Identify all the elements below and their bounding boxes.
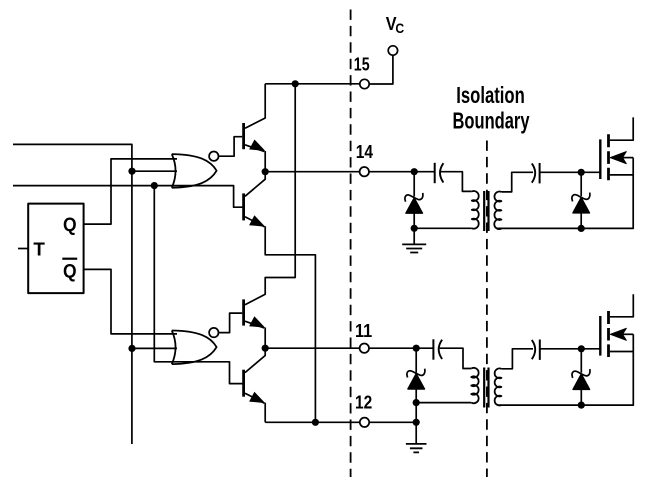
svg-text:Q: Q — [63, 261, 77, 282]
svg-text:14: 14 — [356, 141, 374, 162]
svg-text:11: 11 — [355, 320, 372, 341]
svg-text:12: 12 — [355, 391, 372, 412]
svg-text:Q: Q — [63, 215, 77, 236]
svg-text:Isolation: Isolation — [456, 82, 525, 108]
svg-text:C: C — [395, 20, 404, 36]
svg-text:T: T — [33, 238, 45, 259]
svg-text:Boundary: Boundary — [453, 107, 530, 133]
svg-text:15: 15 — [354, 53, 370, 74]
